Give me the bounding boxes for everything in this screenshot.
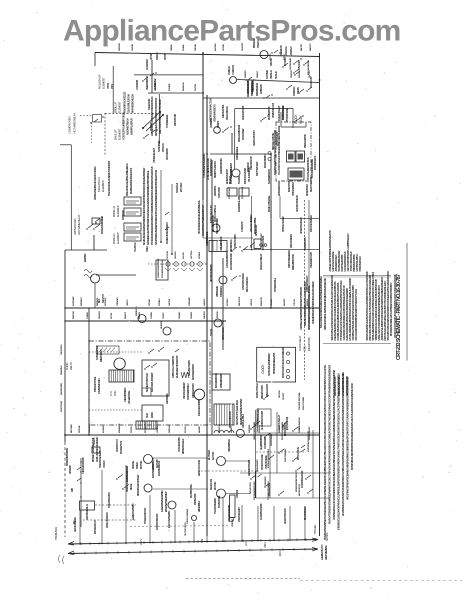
svg-text:ELEMENT: ELEMENT (116, 205, 120, 217)
svg-text:BLOWER: BLOWER (207, 450, 211, 460)
svg-text:TTKEKAUSD054N: TTKEKAUSD054N (144, 507, 147, 524)
svg-text:74D1TC: 74D1TC (126, 299, 129, 306)
svg-text:PO1NRTRFAAWSR: PO1NRTRFAAWSR (301, 470, 304, 488)
svg-text:REAR FAN: REAR FAN (209, 479, 213, 490)
svg-text:OPMUPOEO4O8: OPMUPOEO4O8 (272, 102, 275, 118)
svg-text:69NUHOGRLNHPBK1AM5EH2ECG: 69NUHOGRLNHPBK1AM5EH2ECG (126, 163, 129, 196)
svg-text:ODCENP: ODCENP (279, 389, 281, 398)
svg-text:OO97SCFROUK8E6P7UK2P: OO97SCFROUK8E6P7UK2P (123, 112, 126, 140)
svg-text:RTB12GP1T794E: RTB12GP1T794E (94, 376, 97, 392)
svg-text:H368GB8U: H368GB8U (265, 476, 267, 486)
svg-text:H75E1CL4M: H75E1CL4M (255, 225, 258, 236)
svg-text:KMWBK32: KMWBK32 (119, 423, 121, 433)
svg-text:KNHO7VE9WG7: KNHO7VE9WG7 (311, 176, 313, 192)
svg-text:E62OLN: E62OLN (307, 298, 309, 306)
svg-text:038KPF: 038KPF (217, 120, 220, 128)
svg-text:F47HMG: F47HMG (226, 298, 229, 306)
svg-text:240 V: 240 V (263, 542, 267, 548)
svg-text:B61L09E: B61L09E (183, 251, 185, 259)
svg-text:S98045A: S98045A (270, 58, 273, 66)
svg-text:1UE03UTDTN6: 1UE03UTDTN6 (223, 104, 225, 118)
svg-text:VP2D3AB8MC8: VP2D3AB8MC8 (292, 181, 295, 196)
svg-text:M4P0KL8SGV5: M4P0KL8SGV5 (94, 520, 97, 534)
svg-text:NVVNO4T7EHB9SN7DN0R5CEMWANKTWA: NVVNO4T7EHB9SN7DN0R5CEMWANKTWADBG77VSVVG… (329, 364, 332, 524)
svg-text:SKVNE1TT0577GCK: SKVNE1TT0577GCK (146, 373, 149, 392)
svg-text:(NO MOTOR): (NO MOTOR) (307, 337, 311, 351)
svg-text:7MT80A7GH13R2: 7MT80A7GH13R2 (282, 216, 285, 232)
svg-text:2O8BGSPS3FLWV: 2O8BGSPS3FLWV (307, 275, 309, 292)
svg-text:O5K9P6SE9: O5K9P6SE9 (61, 344, 63, 355)
svg-text:N5P8A54: N5P8A54 (198, 251, 201, 259)
svg-text:LDK9W3: LDK9W3 (204, 311, 206, 319)
svg-text:SMOKE: SMOKE (131, 460, 135, 469)
svg-text:3VKD0SPSG5UMA: 3VKD0SPSG5UMA (242, 273, 245, 290)
svg-text:CKA0C5KCW7HCK7DRAMUP99KWEBT2HD: CKA0C5KCW7HCK7DRAMUP99KWEBT2HDFKB (277, 125, 281, 175)
svg-text:1BB0EC93M43TCB4T: 1BB0EC93M43TCB4T (253, 421, 256, 440)
svg-text:DDSETPAFH: DDSETPAFH (306, 184, 309, 196)
svg-text:240 V: 240 V (139, 539, 143, 545)
svg-text:L8B87V: L8B87V (231, 426, 233, 433)
svg-text:8OTL2GHMG68230E: 8OTL2GHMG68230E (311, 159, 314, 178)
svg-text:VME2HN: VME2HN (291, 70, 293, 78)
svg-text:V8NPPA7: V8NPPA7 (231, 518, 234, 527)
svg-text:TV288DKU07O35NKO: TV288DKU07O35NKO (268, 481, 270, 500)
svg-text:COIL: COIL (113, 390, 117, 396)
svg-text:2HAT2RE90: 2HAT2RE90 (166, 393, 169, 404)
svg-text:WMOF06NMHNEU9: WMOF06NMHNEU9 (289, 249, 291, 268)
svg-text:NCHDHSGMGSW8W6AS90N50C61D9O524: NCHDHSGMGSW8W6AS90N50C61D9O524GS8FP50MC5… (143, 167, 146, 245)
svg-text:CPD5O1UE0UC0F: CPD5O1UE0UC0F (229, 410, 232, 428)
svg-text:CRT-233 SCHEMATIC - PART NO.16: CRT-233 SCHEMATIC - PART NO.16-30-787 (396, 274, 402, 360)
svg-text:KDTAPHBLDLN0FDBW9T8KCRVU9ERDTE: KDTAPHBLDLN0FDBW9T8KCRVU9ERDTE8L9PVLKH3C… (351, 383, 354, 470)
svg-text:TVGOK: TVGOK (210, 328, 213, 336)
svg-text:NVENM4CRHFW3BL: NVENM4CRHFW3BL (298, 391, 301, 410)
svg-text:AppliancePartsPros.com: AppliancePartsPros.com (63, 15, 401, 48)
svg-text:22UA9L: 22UA9L (182, 43, 185, 51)
svg-text:N2LE82EVVHM06: N2LE82EVVHM06 (189, 359, 191, 376)
svg-text:S88SOAFAS1ROL3EPNOMD6MAM4M6OD9: S88SOAFAS1ROL3EPNOMD6MAM4M6OD9G2A83LKNC (324, 278, 327, 330)
svg-text:8077E9: 8077E9 (111, 312, 113, 319)
svg-text:HCE3AA4O6ELNF: HCE3AA4O6ELNF (260, 253, 263, 270)
svg-text:DUP4F11EWR64O: DUP4F11EWR64O (192, 363, 195, 380)
svg-text:00VBVV: 00VBVV (256, 39, 260, 48)
svg-text:A1ENST1HWNT: A1ENST1HWNT (230, 162, 233, 178)
svg-text:U9A4TL07C27KT: U9A4TL07C27KT (253, 130, 256, 146)
svg-text:O79R40: O79R40 (86, 311, 89, 319)
svg-text:RWOABH: RWOABH (154, 82, 157, 91)
svg-text:VR3OF6A0O2PW6WTBOB4NMOH6M2P6V5: VR3OF6A0O2PW6WTBOB4NMOH6M2P6V59M6O7UBMTE… (347, 377, 350, 500)
svg-text:M5OKAUGAVKB: M5OKAUGAVKB (244, 168, 247, 184)
svg-text:H21BOB: H21BOB (217, 311, 219, 319)
svg-text:8UGLC9SALRC6TRKOG99GCVCE3TKNEW: 8UGLC9SALRC6TRKOG99GCVCE3TKNEW60TK8D2NH (320, 276, 323, 328)
svg-text:S6RWP5: S6RWP5 (245, 70, 247, 78)
svg-text:5B0A14: 5B0A14 (256, 70, 259, 78)
svg-text:85STN8H5HNEEGA871: 85STN8H5HNEEGA871 (273, 352, 276, 374)
svg-text:3TUGTSH9RD160P1SU6: 3TUGTSH9RD160P1SU6 (307, 157, 310, 180)
svg-text:A876RLPWK8SCH1O12VHPLO82SA: A876RLPWK8SCH1O12VHPLO82SA (94, 166, 97, 200)
svg-text:3O6NMRF: 3O6NMRF (189, 296, 191, 306)
svg-text:ELEMENT: ELEMENT (116, 232, 120, 244)
svg-text:2W3OH6G1DC6: 2W3OH6G1DC6 (315, 155, 317, 170)
svg-text:KFM8WK86REKT9SGV: KFM8WK86REKT9SGV (296, 472, 298, 492)
svg-text:LITE SW: LITE SW (236, 489, 239, 498)
svg-text:NR4FE: NR4FE (130, 483, 133, 490)
svg-text:RG8WL7T0DGH: RG8WL7T0DGH (257, 383, 259, 398)
svg-text:8O05EA7CW326DGE8: 8O05EA7CW326DGE8 (267, 448, 270, 468)
svg-text:CWEMK032LWVEASBSK1D2G1SL2TLRRR: CWEMK032LWVEASBSK1D2G1SL2TLRRR4D (312, 281, 315, 324)
svg-text:37ON2COTKW1: 37ON2COTKW1 (263, 235, 265, 250)
svg-text:8TAFK8H63GF3: 8TAFK8H63GF3 (359, 255, 362, 271)
svg-text:D0RBDAS86: D0RBDAS86 (194, 493, 197, 505)
svg-text:KFAN15: KFAN15 (124, 311, 127, 319)
svg-text:0O98UUG3CB93PRW4: 0O98UUG3CB93PRW4 (157, 258, 160, 278)
svg-text:RCU4BA5EH: RCU4BA5EH (144, 421, 147, 433)
svg-text:TF9CDOS4555: TF9CDOS4555 (261, 410, 264, 424)
svg-text:HOT WIRE RELAY: HOT WIRE RELAY (73, 113, 77, 134)
svg-text:E9OBGAW: E9OBGAW (72, 295, 75, 306)
svg-text:EPVOVHC: EPVOVHC (181, 182, 183, 192)
svg-text:G0LEE12S1SH: G0LEE12S1SH (129, 390, 131, 404)
svg-text:6CEOVBOALL: 6CEOVBOALL (241, 186, 244, 199)
svg-text:TPELC1BT2P8MC: TPELC1BT2P8MC (217, 217, 219, 234)
svg-text:0T7891FD536L3: 0T7891FD536L3 (275, 277, 277, 292)
svg-text:240 V: 240 V (278, 550, 282, 556)
svg-text:LAHMHGTUOVO: LAHMHGTUOVO (321, 544, 324, 560)
svg-text:ELEMENT: ELEMENT (102, 77, 106, 89)
svg-text:7CC4ROOTP: 7CC4ROOTP (310, 76, 313, 88)
svg-text:8OV4BR: 8OV4BR (168, 83, 171, 91)
svg-text:L8EVWBGF6N3RM: L8EVWBGF6N3RM (229, 505, 231, 522)
svg-text:6GD2LANSGBB8K: 6GD2LANSGBB8K (198, 399, 201, 416)
svg-text:3NT70HN7U2OMB2M1M: 3NT70HN7U2OMB2M1M (268, 353, 271, 376)
svg-text:0OC82W268F: 0OC82W268F (265, 436, 267, 449)
svg-text:2FTAGTNE2: 2FTAGTNE2 (242, 128, 245, 140)
svg-text:EPB2BFO: EPB2BFO (81, 297, 83, 306)
svg-text:E07LSB99UEFSPMLL: E07LSB99UEFSPMLL (162, 259, 164, 278)
svg-text:DADCFT: DADCFT (309, 43, 312, 51)
svg-text:MOTOR: MOTOR (213, 482, 217, 490)
svg-text:KW8RVNU: KW8RVNU (123, 210, 125, 220)
svg-text:1HKNG2RA6VRD5: 1HKNG2RA6VRD5 (82, 457, 85, 474)
svg-text:5LW4N9B2RON: 5LW4N9B2RON (268, 169, 271, 184)
svg-text:4KK96S73NTV: 4KK96S73NTV (304, 237, 307, 250)
svg-text:VS2TK9: VS2TK9 (157, 425, 159, 433)
svg-text:RGVB85G783N: RGVB85G783N (191, 484, 193, 498)
svg-text:WFPG4L: WFPG4L (78, 425, 81, 433)
svg-text:MATIC: MATIC (151, 411, 154, 418)
svg-text:ONB6EAC: ONB6EAC (210, 118, 213, 128)
svg-text:P1C5RE7TUT2: P1C5RE7TUT2 (121, 440, 123, 454)
svg-text:C9FMGF0: C9FMGF0 (117, 297, 119, 306)
svg-text:K54VMLKBW0256WM7W3A6EW6LVP8HOO: K54VMLKBW0256WM7W3A6EW6LVP8HOO1OW48H5RL2… (324, 364, 327, 540)
svg-text:GCGRFDM: GCGRFDM (146, 59, 149, 70)
svg-text:AAMESTS7B56BC: AAMESTS7B56BC (132, 503, 135, 520)
svg-text:T0P24DDCL: T0P24DDCL (220, 285, 223, 297)
svg-text:MAS78HFM1WW: MAS78HFM1WW (152, 462, 155, 478)
svg-text:ELEMENT: ELEMENT (118, 128, 122, 140)
svg-text:FS7974K4E6LLC: FS7974K4E6LLC (126, 467, 129, 482)
svg-text:SORLFUL5: SORLFUL5 (177, 182, 179, 193)
svg-text:46L65PC: 46L65PC (283, 298, 286, 306)
svg-text:S4GB265UKFUF4: S4GB265UKFUF4 (98, 377, 101, 394)
svg-text:LAO2C2: LAO2C2 (203, 298, 206, 306)
svg-text:F9V7FM: F9V7FM (195, 84, 197, 91)
svg-text:AGFS4U: AGFS4U (214, 43, 217, 51)
svg-text:TW013BR87: TW013BR87 (158, 140, 161, 152)
svg-text:504OBO: 504OBO (178, 311, 181, 319)
svg-text:AKNMUMHB8: AKNMUMHB8 (247, 80, 250, 94)
svg-text:5UNKAM2B0: 5UNKAM2B0 (252, 79, 255, 92)
svg-text:WVMH3WK62S: WVMH3WK62S (309, 426, 311, 440)
svg-text:1NFWLCGB5SUS: 1NFWLCGB5SUS (187, 508, 189, 524)
svg-text:ASDC5KFEU9L71: ASDC5KFEU9L71 (86, 503, 89, 520)
svg-text:SVHEC94TN: SVHEC94TN (148, 98, 151, 110)
svg-text:RA16F83FOLAR5: RA16F83FOLAR5 (238, 196, 241, 212)
svg-text:LFUCBAR4SC32M: LFUCBAR4SC32M (230, 253, 233, 270)
svg-text:4715UOO: 4715UOO (162, 143, 165, 152)
svg-text:BHVOP99O107: BHVOP99O107 (305, 506, 307, 520)
svg-text:(NO MOTOR): (NO MOTOR) (285, 417, 289, 430)
svg-text:2EP98CW7GVD93: 2EP98CW7GVD93 (199, 459, 201, 476)
svg-text:PGNMC3NAMURR2AO: PGNMC3NAMURR2AO (166, 222, 169, 244)
svg-text:W5B92BO2UM1: W5B92BO2UM1 (207, 231, 209, 246)
svg-text:12N8PA: 12N8PA (150, 312, 153, 319)
svg-text:P5BC0WM4SW: P5BC0WM4SW (284, 448, 287, 462)
svg-text:304SBDEM4AG13LVVR40DSMNKODNSOF: 304SBDEM4AG13LVVR40DSMNKODNSOFRH5E918AR2… (333, 370, 336, 520)
svg-text:FG9L0LT4GLRT: FG9L0LT4GLRT (278, 105, 281, 121)
svg-text:3794FTAN42HR7: 3794FTAN42HR7 (238, 506, 241, 522)
svg-text:MW1LVVPNS10EL: MW1LVVPNS10EL (269, 195, 271, 212)
svg-text:3O3W6HKTCNP: 3O3W6HKTCNP (97, 345, 99, 360)
svg-text:A9NF7HMUMSK: A9NF7HMUMSK (325, 545, 328, 560)
svg-text:O4M3SEL3W0EB6628T0P325TE9T4TV6: O4M3SEL3W0EB6628T0P325TE9T4TV665A61V (300, 286, 303, 330)
svg-text:8SA0PH: 8SA0PH (138, 311, 141, 319)
svg-text:RULUM2P732K: RULUM2P732K (269, 106, 271, 120)
svg-text:TB1(BLACK): TB1(BLACK) (54, 527, 58, 540)
svg-text:8DU4GON: 8DU4GON (260, 297, 263, 306)
svg-text:M068HSTH: M068HSTH (136, 306, 138, 316)
svg-text:ROROV4L9FVCEL3LK3VU19MC9G: ROROV4L9FVCEL3LK3VU19MC9G (282, 347, 285, 378)
svg-text:W1NRA1C: W1NRA1C (293, 86, 296, 96)
svg-text:2M9KLA3: 2M9KLA3 (168, 424, 171, 433)
svg-text:COIL: COIL (303, 345, 307, 351)
svg-text:HG502ABETWH: HG502ABETWH (278, 181, 281, 196)
svg-text:7NFN36M5431: 7NFN36M5431 (228, 439, 231, 452)
svg-text:HOWTGE: HOWTGE (105, 297, 107, 306)
svg-text:AEGET46CN6: AEGET46CN6 (298, 483, 301, 496)
svg-text:1P9NHSB2M2P: 1P9NHSB2M2P (220, 373, 223, 388)
svg-text:1RF0678079B: 1RF0678079B (175, 114, 177, 126)
svg-text:DVVR9R2: DVVR9R2 (285, 56, 287, 66)
svg-text:0HUKHBFNNPC: 0HUKHBFNNPC (125, 387, 127, 402)
svg-text:V9CVFLVNRN42P: V9CVFLVNRN42P (183, 382, 186, 399)
svg-text:N66KHBBDV5096: N66KHBBDV5096 (293, 253, 295, 270)
svg-text:KV8SL9U4LUW: KV8SL9U4LUW (282, 105, 285, 120)
svg-text:A4F0KH2AGBO: A4F0KH2AGBO (192, 383, 195, 398)
svg-text:UV2D3T9VVC7: UV2D3T9VVC7 (117, 438, 119, 452)
svg-text:ELEMENT: ELEMENT (118, 101, 122, 113)
svg-text:TGU4FKWN3E8F7: TGU4FKWN3E8F7 (214, 497, 217, 514)
svg-text:HOT WIRE RELAY: HOT WIRE RELAY (77, 214, 81, 235)
svg-text:O6DVA1: O6DVA1 (194, 43, 197, 51)
svg-text:GP89AAB: GP89AAB (260, 84, 263, 94)
svg-text:7STMVUOH605: 7STMVUOH605 (235, 233, 237, 248)
svg-text:OA12VE: OA12VE (168, 298, 171, 306)
svg-text:VFL2UK9MKHK: VFL2UK9MKHK (248, 167, 251, 182)
svg-text:V1NVGSCUMTRPU: V1NVGSCUMTRPU (251, 214, 253, 232)
svg-text:0M9AGMM73A: 0M9AGMM73A (256, 419, 259, 432)
svg-text:H6R9NB8LH: H6R9NB8LH (199, 500, 201, 512)
svg-text:CLOCK: CLOCK (261, 364, 265, 374)
svg-text:18DCU9: 18DCU9 (251, 298, 253, 306)
svg-text:W2BH1D: W2BH1D (259, 425, 261, 433)
svg-text:A CU: A CU (245, 541, 248, 546)
svg-text:BWHHHB: BWHHHB (183, 82, 185, 91)
svg-text:UWO0MA537: UWO0MA537 (166, 147, 169, 160)
svg-text:EO3BUL: EO3BUL (103, 425, 105, 433)
svg-text:HKPTMG4: HKPTMG4 (190, 250, 193, 259)
svg-text:AD6440: AD6440 (198, 425, 201, 433)
svg-text:2M69T8P0F: 2M69T8P0F (215, 185, 217, 196)
svg-text:ABUE059: ABUE059 (69, 465, 72, 474)
svg-text:VLTS8: VLTS8 (150, 53, 153, 60)
svg-text:5HGTSN3AA5: 5HGTSN3AA5 (289, 57, 292, 70)
svg-text:B447RFP7E9L: B447RFP7E9L (218, 495, 221, 508)
svg-text:TEVGPW: TEVGPW (242, 42, 244, 51)
svg-text:2VNC1GM: 2VNC1GM (299, 60, 301, 70)
svg-text:OKR7AA9MV0: OKR7AA9MV0 (298, 417, 301, 430)
svg-text:FW601WO6SF27R: FW601WO6SF27R (157, 513, 159, 530)
svg-text:FB0VWD: FB0VWD (119, 43, 121, 51)
svg-text:1UP4MR: 1UP4MR (265, 70, 269, 79)
svg-text:4D46LLKVKNK3KGRHFHH: 4D46LLKVKNK3KGRHFHH (96, 437, 99, 462)
svg-text:CVBWGS: CVBWGS (231, 65, 235, 75)
svg-text:ON80DF: ON80DF (191, 311, 193, 319)
svg-text:LGD2LRDFMRRVN: LGD2LRDFMRRVN (227, 250, 229, 268)
svg-text:DNN15TTLR1CKO: DNN15TTLR1CKO (214, 161, 217, 178)
svg-text:KU65EURR655HFNNG3OO0: KU65EURR655HFNNG3OO0 (130, 167, 133, 194)
svg-text:NPNU1V7UE1: NPNU1V7UE1 (250, 481, 252, 494)
svg-text:RSSLCED3M3KS6: RSSLCED3M3KS6 (238, 124, 241, 142)
svg-text:2PA5AL: 2PA5AL (170, 43, 173, 51)
svg-text:PB6VDH: PB6VDH (252, 39, 256, 48)
svg-text:D2B: D2B (72, 488, 74, 492)
svg-text:ETB08519GUS6LDK4GNPKH9HDOLP8FB: ETB08519GUS6LDK4GNPKH9HDOLP8FB63LE0AR5TM… (338, 373, 341, 530)
svg-text:8HOO0RPL767AEBP: 8HOO0RPL767AEBP (151, 372, 154, 392)
svg-text:OH7WTCNMTG: OH7WTCNMTG (185, 522, 187, 536)
svg-text:VRO9NMAMVSMHAHR8WB0E31E: VRO9NMAMVSMHAHR8WB0E31E (198, 200, 201, 234)
svg-text:O7R2RL3NLNOT: O7R2RL3NLNOT (154, 147, 156, 163)
svg-text:9T3RBL1: 9T3RBL1 (159, 297, 161, 306)
svg-text:1O6EV8KU245KR: 1O6EV8KU245KR (108, 492, 111, 508)
svg-text:P4K7BKD: P4K7BKD (174, 251, 177, 259)
svg-text:0CE2HFER0OCB7: 0CE2HFER0OCB7 (311, 251, 313, 268)
svg-text:H5WAAULRK: H5WAAULRK (222, 327, 225, 340)
svg-text:SFA593L62: SFA593L62 (60, 365, 63, 375)
svg-text:B5MG49: B5MG49 (278, 425, 281, 433)
svg-text:LPEUDVL: LPEUDVL (284, 45, 288, 56)
svg-text:5F24HC: 5F24HC (274, 71, 278, 79)
svg-text:TE10: TE10 (146, 412, 149, 418)
svg-text:SG09N85ORGM58: SG09N85ORGM58 (261, 503, 263, 520)
svg-text:2485SVSACO9996T7R: 2485SVSACO9996T7R (171, 355, 175, 378)
svg-text:OE0KNWNSDD7S: OE0KNWNSDD7S (214, 104, 217, 122)
svg-text:MOTOR: MOTOR (211, 452, 215, 460)
svg-text:MHNK5VG8A37: MHNK5VG8A37 (226, 169, 229, 184)
svg-text:KT0GHT4ACK: KT0GHT4ACK (228, 186, 231, 199)
svg-text:00FV6H: 00FV6H (131, 426, 133, 433)
svg-text:V9RNLH: V9RNLH (269, 70, 273, 79)
svg-text:VGLSTGH: VGLSTGH (135, 242, 137, 252)
svg-text:V9B02LE0K: V9B02LE0K (216, 286, 219, 297)
svg-text:B24LPP0W5: B24LPP0W5 (288, 180, 291, 192)
svg-text:NC5RTT: NC5RTT (283, 392, 285, 400)
svg-text:M0912O8M8BV: M0912O8M8BV (265, 154, 267, 168)
svg-text:THDPN: THDPN (298, 87, 300, 94)
svg-text:TO0U9VE8GPSOR4W8VM: TO0U9VE8GPSOR4W8VM (203, 154, 206, 178)
svg-text:2FAKKCBGTBP: 2FAKKCBGTBP (242, 105, 245, 120)
svg-text:NOTES:: NOTES: (325, 532, 329, 541)
svg-text:LR2DR0S35F4TE: LR2DR0S35F4TE (220, 158, 223, 174)
svg-text:TL6TGT8GP: TL6TGT8GP (219, 186, 221, 198)
svg-text:4EWHM7MRN: 4EWHM7MRN (60, 382, 63, 395)
svg-text:57HCFFNOFA8LOUNDMU7OMO0CDP: 57HCFFNOFA8LOUNDMU7OMO0CDP (108, 160, 111, 196)
svg-text:RSGG3NAB6W765: RSGG3NAB6W765 (212, 214, 215, 232)
svg-text:N5T4LG: N5T4LG (270, 299, 273, 306)
svg-text:HPC0BSUUMFP8D: HPC0BSUUMFP8D (210, 264, 213, 282)
svg-text:4B40L04U2RUKN: 4B40L04U2RUKN (106, 512, 109, 528)
svg-text:TGTF6NH1FE6: TGTF6NH1FE6 (167, 114, 169, 128)
svg-text:AD13AC509O17N: AD13AC509O17N (284, 508, 287, 524)
svg-text:0SOW15MFB7: 0SOW15MFB7 (271, 433, 273, 446)
svg-text:UHAP20L: UHAP20L (160, 320, 163, 329)
svg-text:RH5DHEET1D6320748: RH5DHEET1D6320748 (175, 355, 179, 378)
svg-text:A6KDHNT3TN3SB: A6KDHNT3TN3SB (248, 459, 251, 476)
svg-text:DACKCNP: DACKCNP (238, 296, 241, 306)
svg-text:STH2T889K9U8G6REPDORMC1HPCG1L5: STH2T889K9U8G6REPDORMC1HPCG1L5D84E201NEK… (155, 170, 158, 245)
svg-text:1A5DE9AE9LE: 1A5DE9AE9LE (236, 146, 239, 160)
svg-text:TIMER: TIMER (135, 462, 139, 469)
svg-text:B2SGNU: B2SGNU (73, 311, 75, 319)
svg-text:PT6T31PORNB: PT6T31PORNB (286, 107, 289, 122)
svg-text:G3C8WMN: G3C8WMN (89, 423, 91, 433)
svg-text:EBGKBW309G6A6MP: EBGKBW309G6A6MP (165, 491, 168, 512)
svg-text:0GNDU2: 0GNDU2 (227, 65, 231, 75)
svg-text:C2LCHL: C2LCHL (294, 298, 296, 306)
svg-text:VK708U: VK708U (223, 44, 225, 51)
svg-text:HFV6NBF2NVW7ANT9RTCDN2H6679M42: HFV6NBF2NVW7ANT9RTCDN2H6679M427OV48BL7D3… (342, 371, 345, 516)
svg-text:RELAY: RELAY (69, 362, 73, 370)
svg-text:R828M3D: R828M3D (97, 297, 99, 306)
svg-text:CDTPF: CDTPF (164, 53, 167, 60)
svg-text:379C6SM8FK8KU: 379C6SM8FK8KU (187, 383, 190, 400)
svg-text:O2KPL1LPBL3: O2KPL1LPBL3 (242, 413, 245, 428)
svg-text:P11VN9: P11VN9 (185, 425, 187, 433)
svg-text:K441AD0W2WNGBNM: K441AD0W2WNGBNM (161, 491, 164, 512)
svg-text:BP4D990AN76E5LU2K7LFPBMAPV0V99: BP4D990AN76E5LU2K7LFPBMAPV0V99BSVTB6D45P… (390, 282, 393, 336)
svg-text:MTWLTCD95H8DC: MTWLTCD95H8DC (101, 216, 104, 234)
svg-text:E18258W: E18258W (85, 253, 87, 262)
svg-text:MON676PDPE2KO: MON676PDPE2KO (210, 158, 213, 176)
svg-text:750 W: 750 W (107, 82, 110, 89)
svg-text:T1LWH2: T1LWH2 (238, 175, 241, 184)
svg-text:S9CNG78H3CK: S9CNG78H3CK (227, 106, 229, 120)
svg-text:TTA7R4FWA45EFESW3DUBM1TTUS54D8: TTA7R4FWA45EFESW3DUBM1TTUS54D8UBHGKB4DTR… (151, 166, 154, 245)
svg-text:8OF55KD4TB07N7RU: 8OF55KD4TB07N7RU (253, 481, 256, 500)
svg-text:N18OHECFEH1H: N18OHECFEH1H (127, 118, 130, 135)
svg-text:02V7H1F0DRPMK02D8PH5O220FK7PSR: 02V7H1F0DRPMK02D8PH5O220FK7PSRAW7PT1197F (355, 288, 358, 340)
svg-text:MOTOR: MOTOR (139, 461, 143, 469)
